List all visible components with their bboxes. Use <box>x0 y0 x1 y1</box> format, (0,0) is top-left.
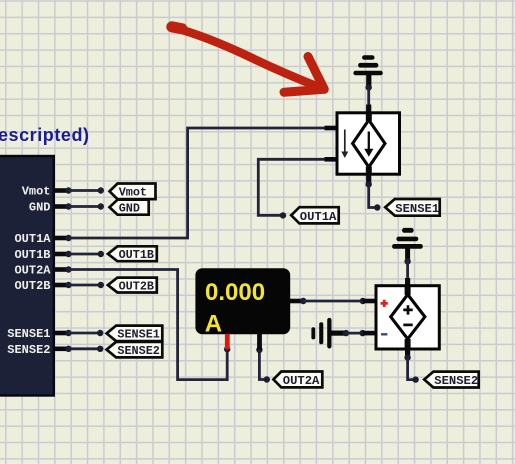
wire OUT2B pin to flag <box>69 282 105 288</box>
pin name GND <box>29 201 51 215</box>
svg-text:OUT1B: OUT1B <box>14 248 50 262</box>
wire OUT1A pin to source G1 upper input <box>69 128 339 238</box>
net label SENSE2 right <box>424 372 479 388</box>
net label OUT2A <box>273 372 322 388</box>
wire source G2 output to SENSE2 flag <box>404 349 418 383</box>
net label SENSE1 left <box>107 326 163 342</box>
pin stub GND <box>54 203 72 209</box>
ground left (rotated) <box>311 318 344 349</box>
pin stub SENSE1 <box>54 330 72 336</box>
pin name OUT2A <box>14 264 51 278</box>
pin stub OUT1B <box>54 251 72 257</box>
wire bottom ground to source G2 <box>404 258 410 287</box>
svg-text:SENSE2: SENSE2 <box>434 374 478 388</box>
ground bottom <box>392 228 423 260</box>
svg-text:GND: GND <box>119 201 140 215</box>
pin name Vmot <box>22 185 51 199</box>
svg-text:OUT2A: OUT2A <box>283 374 320 388</box>
G2 diamond plus <box>403 305 412 314</box>
red annotation arrow <box>172 27 324 92</box>
svg-text:escripted): escripted) <box>0 125 90 145</box>
svg-text:GND: GND <box>29 201 51 215</box>
pin stub SENSE2 <box>54 346 72 352</box>
svg-text:OUT2B: OUT2B <box>14 279 50 293</box>
net label OUT2B <box>108 278 157 294</box>
G1 control arrow <box>341 130 348 159</box>
svg-text:OUT1A: OUT1A <box>14 232 51 246</box>
G2 minus terminal label <box>381 333 387 335</box>
wire source G1 output to SENSE1 flag <box>366 174 381 211</box>
G2 diamond minus <box>403 324 412 327</box>
svg-text:Vmot: Vmot <box>119 186 147 200</box>
net label SENSE2 left <box>107 342 163 358</box>
wire Vmot pin to flag <box>69 187 105 193</box>
G2 plus terminal label <box>381 300 388 307</box>
pin name OUT2B <box>14 279 50 293</box>
svg-text:SENSE1: SENSE1 <box>395 202 439 216</box>
svg-text:A: A <box>205 310 222 337</box>
ground top <box>353 55 382 88</box>
svg-text:SENSE2: SENSE2 <box>7 343 50 357</box>
wire ammeter negative to OUT2A flag <box>256 347 270 383</box>
wire left ground to source G2 minus input <box>343 330 378 336</box>
controlled current source G1 <box>337 113 400 174</box>
wire ammeter output to source G2 plus input <box>290 298 378 304</box>
svg-text:OUT2B: OUT2B <box>119 279 154 293</box>
svg-text:OUT1B: OUT1B <box>119 248 154 262</box>
controlled current source G2 <box>376 286 439 349</box>
svg-text:SENSE2: SENSE2 <box>117 344 159 358</box>
wire OUT2A pin to ammeter positive <box>69 270 231 380</box>
wire OUT1A flag to source G1 lower input <box>258 159 338 218</box>
wire SENSE2 pin to flag <box>69 346 104 352</box>
annotation text (truncated) <box>0 125 90 145</box>
pin name SENSE1 <box>7 327 50 341</box>
pin name SENSE2 <box>7 343 50 357</box>
net label GND <box>110 200 149 216</box>
ammeter positive pin (red) <box>225 334 230 350</box>
pin stub Vmot <box>54 187 72 193</box>
svg-text:SENSE1: SENSE1 <box>117 328 159 342</box>
pin stub OUT1A <box>54 235 72 241</box>
svg-text:Vmot: Vmot <box>22 185 51 199</box>
wire OUT1B pin to flag <box>69 251 105 257</box>
ammeter AM1 <box>195 268 290 337</box>
net label OUT1A <box>291 207 339 224</box>
svg-text:OUT1A: OUT1A <box>300 210 337 224</box>
IC U1 body <box>0 156 54 396</box>
wire top ground to source G1 <box>366 84 372 114</box>
pin stub OUT2B <box>54 282 72 288</box>
G1 diamond arrow <box>364 132 373 157</box>
ammeter negative pin <box>257 334 262 350</box>
pin name OUT1A <box>14 232 51 246</box>
wire GND pin to flag <box>69 203 105 209</box>
net label SENSE1 right <box>385 199 440 216</box>
net label Vmot <box>110 184 156 200</box>
net label OUT1B <box>108 246 157 262</box>
pin name OUT1B <box>14 248 50 262</box>
svg-text:0.000: 0.000 <box>205 279 265 306</box>
pin stub OUT2A <box>54 266 72 272</box>
wire SENSE1 pin to flag <box>69 330 104 336</box>
svg-text:OUT2A: OUT2A <box>14 264 51 278</box>
svg-text:SENSE1: SENSE1 <box>7 327 50 341</box>
